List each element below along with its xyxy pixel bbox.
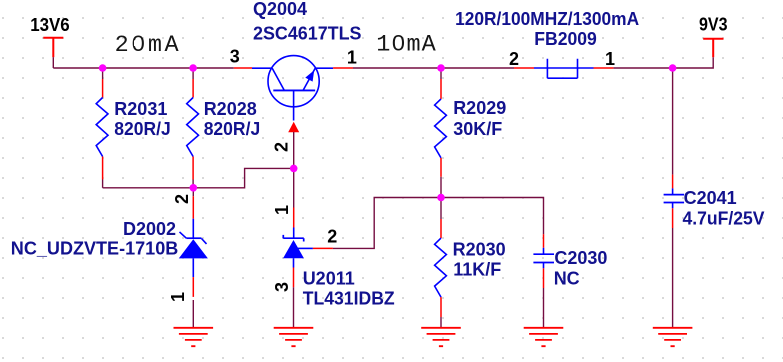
C2030 bottom plate stub	[543, 263, 545, 269]
ferrite bead FB2009	[455, 9, 639, 78]
wire: lower bus R2031 to node	[103, 187, 194, 189]
masks for mono zero dots	[396, 40, 402, 46]
node bus/R2028	[189, 64, 197, 72]
wire: D2002 to ground	[192, 300, 194, 327]
U2011 pin 2 lead	[313, 247, 333, 249]
svg-text:R2029: R2029	[453, 98, 506, 118]
node ref/R2029/R2030	[437, 194, 445, 202]
Q2004 collector entry	[252, 67, 272, 69]
svg-text:1: 1	[347, 48, 357, 68]
wire: bus to R2029	[440, 68, 442, 79]
svg-text:4.7uF/25V: 4.7uF/25V	[683, 209, 765, 229]
Q2004 emitter arrow	[305, 70, 314, 81]
resistor R2029	[435, 68, 507, 198]
C2041 bottom plate stub	[672, 203, 674, 209]
shunt regulator U2011	[272, 168, 395, 327]
svg-text:2: 2	[172, 194, 192, 204]
R2028 zigzag body	[187, 98, 199, 157]
R2028 pin 2 lead	[192, 157, 194, 180]
node R2031/R2028/D2002	[190, 184, 198, 192]
C2030 pin 2 lead	[543, 268, 545, 288]
R2030 pin 2 lead	[440, 297, 442, 317]
wire: C2041 to ground	[672, 228, 674, 327]
D2002 cathode lead	[192, 219, 194, 239]
Q2004 body circle	[268, 56, 319, 107]
Q2004 base lead down	[293, 90, 295, 120]
wire: R2028 to node	[192, 180, 194, 188]
svg-text:D2002: D2002	[123, 219, 176, 239]
R2029 pin 1 lead	[440, 79, 442, 99]
svg-text:R2030: R2030	[453, 240, 506, 260]
wire: U2011 to ground	[293, 287, 295, 327]
svg-text:2SC4617TLS: 2SC4617TLS	[253, 24, 362, 44]
resistor R2030	[435, 198, 506, 328]
svg-text:2: 2	[272, 142, 292, 152]
R2031 pin 2 lead	[102, 157, 104, 180]
svg-text:TL431IDBZ: TL431IDBZ	[303, 288, 395, 308]
ground (R2030)	[421, 328, 461, 346]
D2002 cathode bar right tick	[202, 239, 207, 244]
wire: node to D2002	[192, 190, 194, 197]
svg-text:3: 3	[230, 47, 240, 67]
FB2009 pin 2 lead	[514, 67, 534, 69]
svg-text:R2031: R2031	[114, 99, 167, 119]
svg-text:820R/J: 820R/J	[114, 119, 171, 139]
resistor R2028	[187, 68, 261, 188]
wire: main bus left segment	[53, 67, 234, 69]
U2011 cathode lead	[293, 228, 295, 239]
Q2004 emitter exit	[315, 67, 333, 69]
svg-text:1: 1	[605, 49, 615, 69]
ground (D2002)	[174, 328, 214, 346]
svg-text:20mA: 20mA	[115, 32, 180, 59]
svg-text:11K/F: 11K/F	[453, 259, 501, 279]
U2011 anode triangle	[283, 240, 304, 258]
node bus/R2031	[99, 64, 107, 72]
C2041 pin 2 lead	[672, 208, 674, 228]
pin 3 (Q2004 collector lead)	[234, 67, 252, 69]
red arrow on base	[288, 122, 299, 133]
svg-text:820R/J: 820R/J	[204, 119, 261, 139]
svg-text:13V6: 13V6	[30, 15, 69, 35]
FB2009 body through-line	[534, 67, 594, 69]
node base/U2011	[290, 165, 298, 173]
svg-text:U2011: U2011	[303, 269, 355, 289]
wire: node to C2030	[441, 198, 544, 235]
Q2004 collector diagonal	[272, 68, 284, 90]
power port 13V6	[43, 38, 63, 57]
Q2004 base bar	[273, 89, 315, 91]
power port 9V3	[703, 39, 723, 57]
svg-text:3: 3	[272, 282, 292, 292]
svg-text:30K/F: 30K/F	[453, 119, 502, 139]
svg-text:2: 2	[509, 49, 519, 69]
U2011 anode lead	[293, 258, 295, 267]
node bus/C2041	[669, 64, 677, 72]
ground (U2011)	[274, 328, 314, 346]
R2030 zigzag body	[435, 238, 447, 297]
wire: R2030 to ground	[440, 317, 442, 327]
C2041 plates	[664, 195, 685, 203]
wire: 13V6 stem to bus corner	[52, 57, 54, 68]
wire: node jog to base node	[193, 168, 293, 187]
zener diode D2002	[11, 190, 208, 328]
wire: R2029 to ref node	[440, 177, 442, 198]
R2029 zigzag body	[435, 99, 447, 158]
capacitor C2041	[664, 68, 765, 327]
D2002 cathode bar left tick	[180, 232, 187, 238]
node bus/R2029	[437, 64, 445, 72]
svg-text:2: 2	[327, 227, 337, 247]
svg-text:C2030: C2030	[554, 248, 607, 268]
wire: bus to C2041	[672, 68, 674, 175]
D2002 cathode bar	[186, 237, 201, 239]
R2028 pin 1 lead	[192, 79, 194, 98]
FB2009 body bracket	[547, 59, 577, 78]
FB2009 pin 1 lead	[594, 67, 614, 69]
svg-text:Q2004: Q2004	[253, 0, 307, 19]
C2041 top plate stub	[672, 188, 674, 194]
svg-text:1: 1	[272, 205, 292, 215]
svg-text:R2028: R2028	[204, 99, 257, 119]
wire: main bus middle segment (transistor to FB)	[353, 67, 514, 69]
wire: R2031 to lower bus	[102, 180, 104, 188]
R2030 pin 1 lead	[440, 219, 442, 238]
junction node dots	[99, 64, 677, 201]
C2030 top plate stub	[543, 248, 545, 254]
svg-text:NC: NC	[554, 268, 580, 288]
ground (C2030)	[524, 328, 564, 346]
transistor Q2004	[252, 56, 333, 121]
D2002 pin 2 lead	[192, 196, 194, 219]
svg-text:NC_UDZVTE-1710B: NC_UDZVTE-1710B	[11, 238, 179, 258]
ground (C2041)	[653, 328, 693, 346]
R2029 pin 2 lead	[440, 158, 442, 177]
C2030 plates	[533, 254, 554, 262]
wire: U2011 ref to R2029/R2030 node	[333, 198, 441, 249]
wire: ref node to R2030	[440, 198, 442, 220]
svg-text:10mA: 10mA	[376, 32, 436, 59]
svg-text:C2041: C2041	[684, 188, 737, 208]
U2011 pin 1 lead	[293, 208, 295, 228]
Q2004 emitter diagonal	[303, 68, 315, 90]
wire: bus to R2028	[192, 68, 194, 79]
wire: base down to node	[293, 132, 295, 168]
capacitor C2030	[533, 234, 607, 327]
U2011 cathode bar with ticks	[283, 235, 303, 242]
pin 1 (Q2004 emitter lead)	[333, 67, 353, 69]
D2002 pin 1 lead	[192, 277, 194, 297]
svg-text:FB2009: FB2009	[534, 29, 597, 49]
svg-text:9V3: 9V3	[699, 15, 728, 35]
U2011 ref stub	[297, 247, 313, 249]
R2031 zigzag body	[96, 98, 108, 157]
U2011 pin 3 lead	[293, 268, 295, 288]
D2002 anode lead	[192, 258, 194, 277]
svg-text:120R/100MHZ/1300mA: 120R/100MHZ/1300mA	[455, 9, 639, 29]
D2002 anode triangle	[179, 239, 208, 258]
svg-text:1: 1	[168, 292, 188, 302]
wire: base node to U2011	[293, 168, 295, 207]
resistor R2031	[96, 68, 171, 188]
wire: C2030 to ground	[543, 288, 545, 327]
R2031 pin 1 lead	[102, 79, 104, 98]
C2041 pin 1 lead	[672, 175, 674, 189]
wire: bus to R2031	[102, 68, 104, 79]
wire: main bus right segment (FB to 9V3)	[613, 57, 713, 68]
C2030 pin 1 lead	[543, 234, 545, 248]
